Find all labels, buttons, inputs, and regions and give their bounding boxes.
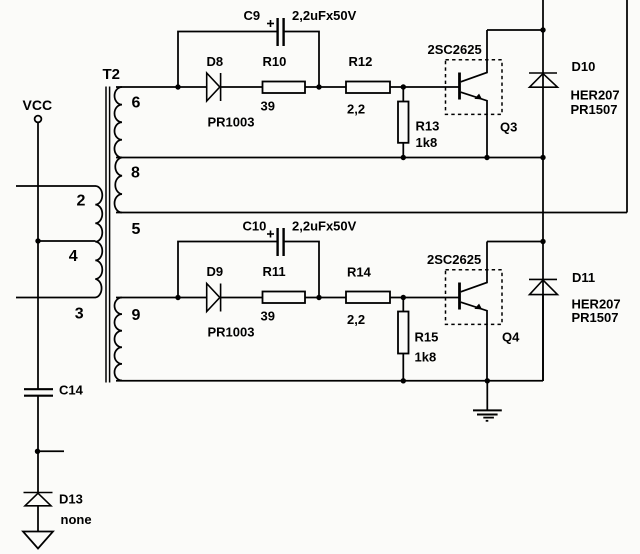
wire R11 to R14: [305, 297, 346, 299]
wire C14 to D13: [37, 396, 39, 493]
capacitor C10 loop left wire: [178, 242, 278, 298]
wire R15 bottom stub: [402, 354, 404, 382]
svg-text:2,2uFx50V: 2,2uFx50V: [292, 8, 357, 23]
node VCC terminal: [35, 116, 42, 123]
wire VCC vertical: [37, 122, 39, 389]
ground (triangle style): [23, 532, 53, 549]
wire tap 2: [16, 185, 96, 187]
svg-text:1k8: 1k8: [416, 135, 438, 150]
junction row2b x487: [485, 378, 490, 383]
svg-text:PR1507: PR1507: [571, 102, 618, 117]
svg-text:2: 2: [77, 193, 86, 210]
svg-text:D8: D8: [207, 54, 224, 69]
resistor R11: [263, 292, 306, 304]
wire row2b winding9 bottom: [116, 380, 543, 382]
junction row1b x543: [540, 155, 545, 160]
junction row2b x403: [401, 378, 406, 383]
svg-text:3: 3: [75, 306, 84, 323]
svg-text:PR1003: PR1003: [208, 115, 255, 130]
svg-text:R14: R14: [347, 265, 372, 280]
wire Q4 collector to D11 column: [487, 241, 543, 243]
svg-text:HER207: HER207: [571, 88, 620, 103]
svg-text:PR1003: PR1003: [208, 325, 255, 340]
junction stub node: [35, 449, 64, 454]
junction row1b x487: [484, 155, 489, 160]
svg-text:PR1507: PR1507: [572, 310, 619, 325]
capacitor C14: [24, 389, 53, 396]
svg-text:2,2: 2,2: [347, 312, 365, 327]
svg-text:2,2: 2,2: [347, 102, 365, 117]
svg-text:2SC2625: 2SC2625: [427, 252, 481, 267]
transformer T2 winding 6 (right top): [114, 87, 122, 158]
capacitor C10: [278, 228, 284, 256]
svg-text:8: 8: [131, 165, 140, 182]
svg-text:2,2uFx50V: 2,2uFx50V: [292, 219, 357, 234]
capacitor C10 loop right wire: [284, 242, 319, 298]
resistor R10: [263, 82, 306, 94]
wire R14 to Q4 base: [390, 297, 460, 299]
junction collector top: [540, 27, 545, 32]
diode D8: [207, 73, 221, 101]
wire D9 to R11: [221, 297, 263, 299]
C9 polarity plus: [267, 20, 274, 27]
wire D10 column vertical: [542, 0, 544, 381]
transformer T2 winding 8 (right middle): [115, 158, 122, 213]
C10 polarity plus: [267, 231, 274, 238]
junction row2 x403: [401, 295, 406, 300]
wire D8 to R10: [221, 86, 263, 88]
transformer T2 primary winding (left, taps 2-4-3): [95, 186, 102, 298]
svg-text:Q3: Q3: [500, 120, 517, 135]
svg-text:D10: D10: [572, 59, 596, 74]
svg-text:6: 6: [132, 95, 141, 112]
wire D13 to ground: [37, 506, 39, 532]
transformer T2 winding 9 (right bottom): [115, 298, 123, 381]
wire row1 winding6 to D8: [116, 86, 207, 88]
svg-text:Q4: Q4: [502, 330, 520, 345]
transistor Q4: [460, 242, 488, 382]
svg-text:R12: R12: [349, 54, 373, 69]
capacitor C9 loop right wire: [284, 32, 319, 88]
resistor R14: [346, 292, 390, 304]
transistor Q4 dashed package box: [446, 270, 503, 325]
diode D11: [529, 279, 558, 294]
ground (bar style) at Q4 emitter: [473, 410, 502, 420]
wire Q3 collector to D10 column: [487, 29, 543, 31]
svg-text:R10: R10: [263, 54, 287, 69]
wire row1b winding6 bottom: [116, 157, 543, 159]
wire row 5 winding8 bottom: [116, 212, 627, 214]
svg-text:C9: C9: [244, 8, 261, 23]
transistor Q3: [460, 30, 488, 158]
svg-text:2SC2625: 2SC2625: [428, 42, 482, 57]
svg-text:D13: D13: [59, 492, 83, 507]
svg-text:R13: R13: [416, 119, 440, 134]
svg-text:none: none: [61, 512, 92, 527]
svg-text:D9: D9: [207, 264, 224, 279]
svg-text:1k8: 1k8: [415, 350, 437, 365]
junction row1 x319: [316, 84, 321, 89]
junction collector row2 top: [540, 239, 545, 244]
wire row2 winding9 top to D9: [116, 297, 207, 299]
junction row1b x403: [401, 155, 406, 160]
transformer T2 core: [106, 87, 110, 383]
svg-text:39: 39: [261, 99, 275, 114]
resistor R13: [398, 102, 409, 143]
svg-text:R15: R15: [415, 330, 439, 345]
transistor Q3 dashed package box: [446, 60, 503, 115]
diode D9: [207, 284, 221, 312]
wire emitter to ground: [486, 381, 488, 411]
junction row2 x319: [316, 295, 321, 300]
svg-text:C14: C14: [59, 383, 84, 398]
capacitor C9: [278, 18, 284, 46]
svg-text:C10: C10: [243, 218, 267, 233]
svg-text:9: 9: [132, 307, 141, 324]
resistor R15: [398, 312, 409, 354]
junction row1 x403: [401, 84, 406, 89]
svg-text:4: 4: [69, 248, 78, 265]
wire tap 4: [38, 240, 96, 242]
svg-text:D11: D11: [572, 270, 595, 285]
capacitor C9 loop left wire: [178, 32, 278, 88]
wire R13 bottom stub: [402, 143, 404, 158]
wire right edge vertical: [626, 0, 628, 213]
wire R10 to R12: [305, 86, 346, 88]
junction at tap 4: [35, 238, 40, 243]
svg-text:39: 39: [261, 309, 275, 324]
svg-text:5: 5: [132, 221, 141, 238]
resistor R12: [346, 82, 390, 94]
diode D10: [529, 73, 558, 87]
wire D11 column corner: [542, 295, 544, 381]
junction row2 x178: [175, 295, 180, 300]
wire R12 to Q3 base: [390, 86, 460, 88]
wire tap 3: [16, 297, 96, 299]
svg-text:VCC: VCC: [23, 97, 53, 113]
svg-text:T2: T2: [103, 66, 121, 83]
diode D13: [24, 493, 53, 506]
svg-text:R11: R11: [263, 264, 286, 279]
wire R13 top stub: [402, 87, 404, 102]
wire R15 top stub: [402, 298, 404, 312]
junction row1 x178: [175, 84, 180, 89]
